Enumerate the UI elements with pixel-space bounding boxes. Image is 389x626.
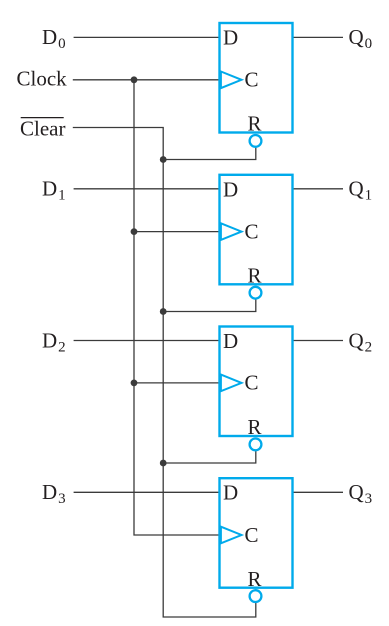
svg-text:Q1: Q1: [349, 177, 373, 204]
flip-flop U4 body: [220, 478, 293, 588]
wire Q3 output: [293, 491, 344, 493]
wire D3 input: [74, 491, 220, 493]
flip-flop U3 clock edge triangle: [221, 375, 242, 392]
wire Clock vertical bus with branch to C of U4: [134, 80, 220, 535]
svg-text:D: D: [223, 26, 238, 50]
wire Clock branch to C of U2: [134, 231, 220, 233]
wire Clear branch to R bubble of U1: [163, 147, 256, 160]
svg-text:C: C: [245, 371, 259, 395]
flip-flop U2 body: [220, 175, 293, 284]
wire Clear branch to R bubble of U3: [163, 450, 256, 463]
flip-flop U1 clock edge triangle: [221, 72, 242, 89]
flip-flop U1 body: [220, 23, 293, 133]
svg-text:C: C: [245, 219, 259, 243]
wire Clock to C of U1: [73, 79, 220, 81]
svg-text:D1: D1: [42, 177, 66, 204]
svg-text:D2: D2: [42, 328, 66, 355]
flip-flop U3 body: [220, 327, 293, 437]
svg-text:C: C: [245, 523, 259, 547]
junction Clock at U2: [131, 228, 138, 235]
wire Q1 output: [293, 188, 344, 190]
wire D2 input: [74, 340, 220, 342]
svg-text:D: D: [223, 329, 238, 353]
svg-text:Q0: Q0: [349, 25, 373, 52]
overline for Clear: [21, 117, 64, 119]
wire Q0 output: [293, 36, 344, 38]
flip-flop U4 clock edge triangle: [221, 527, 242, 544]
junction Clear at U3: [160, 460, 167, 467]
svg-text:Q2: Q2: [349, 328, 373, 355]
junction Clear at U2: [160, 308, 167, 315]
svg-text:D: D: [223, 177, 238, 201]
wire Q2 output: [293, 340, 344, 342]
junction Clock at U1: [131, 76, 138, 83]
wire Clear branch to R bubble of U2: [163, 299, 256, 312]
wire D0 input: [74, 36, 220, 38]
flip-flop U2 reset bubble: [250, 287, 262, 299]
svg-text:D0: D0: [42, 25, 66, 52]
wire Clock branch to C of U3: [134, 382, 220, 384]
junction Clock at U3: [131, 380, 138, 387]
flip-flop U4 reset bubble: [250, 590, 262, 602]
svg-text:Q3: Q3: [349, 480, 373, 507]
svg-text:Clear: Clear: [20, 117, 65, 141]
wire D1 input: [74, 188, 220, 190]
svg-text:C: C: [245, 68, 259, 92]
svg-text:D: D: [223, 481, 238, 505]
flip-flop U3 reset bubble: [250, 439, 262, 451]
junction Clear at U1: [160, 156, 167, 163]
flip-flop U1 reset bubble: [250, 135, 262, 147]
svg-text:R: R: [248, 264, 262, 288]
flip-flop U2 clock edge triangle: [221, 223, 242, 240]
svg-text:D3: D3: [42, 480, 66, 507]
svg-text:R: R: [248, 112, 262, 136]
svg-text:R: R: [248, 567, 262, 591]
svg-text:Clock: Clock: [17, 67, 68, 91]
svg-text:R: R: [248, 415, 262, 439]
wire Clear vertical bus with branch to R bubble of U4: [73, 128, 256, 618]
